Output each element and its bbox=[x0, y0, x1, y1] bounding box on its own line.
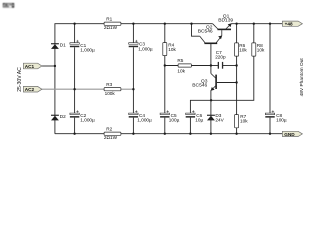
resistor R5 bbox=[177, 58, 191, 73]
node R3 to C3 C4 bbox=[132, 88, 134, 90]
capacitor C2 bbox=[70, 110, 95, 122]
svg-text:100µ: 100µ bbox=[276, 118, 287, 123]
svg-text:2Ω1W: 2Ω1W bbox=[104, 25, 118, 30]
wire C6 vertical bbox=[189, 118, 191, 134]
svg-text:100k: 100k bbox=[105, 91, 116, 96]
node AC1 junction bbox=[54, 65, 56, 67]
wire C7 left bbox=[211, 65, 218, 67]
wire AC1 to D line bbox=[42, 65, 55, 67]
wire R3 right bbox=[121, 88, 133, 90]
junction R4 top rail bbox=[164, 23, 166, 25]
wire R4 C5 vertical bbox=[164, 24, 166, 134]
node Q2 base R5 C7 bbox=[210, 64, 212, 66]
resistor R3 bbox=[104, 82, 121, 96]
wire Q2 collector from rail bbox=[192, 24, 200, 37]
capacitor C6 bbox=[186, 110, 204, 122]
resistor R8 bbox=[252, 43, 265, 56]
resistor R7 bbox=[235, 114, 249, 128]
svg-text:AC2: AC2 bbox=[25, 87, 35, 92]
node Q3 base R6 R7 bbox=[235, 81, 237, 83]
wire bottom rail bbox=[55, 133, 283, 135]
transistor Q3 BC546 bbox=[192, 74, 217, 91]
svg-text:10k: 10k bbox=[240, 119, 248, 124]
node AC2 capacitor midpoint bbox=[73, 88, 75, 90]
node C6 R8 D3 bbox=[210, 99, 212, 101]
junction C6 bottom rail bbox=[189, 133, 191, 135]
svg-text:R5: R5 bbox=[177, 58, 183, 63]
logo mark top left bbox=[3, 3, 15, 8]
junction C1 top rail bbox=[73, 23, 75, 25]
junction R6 top rail bbox=[235, 23, 237, 25]
svg-text:1,000µ: 1,000µ bbox=[138, 47, 153, 52]
resistor R1 bbox=[104, 17, 121, 30]
svg-text:R1: R1 bbox=[106, 17, 112, 22]
svg-text:1,000µ: 1,000µ bbox=[137, 118, 152, 123]
svg-text:D1: D1 bbox=[60, 43, 66, 48]
wire Q2 base node to Q3 collector bbox=[210, 66, 212, 74]
wire top rail left segment bbox=[55, 24, 213, 134]
junction C8 bottom rail bbox=[269, 133, 271, 135]
wire C1 C2 vertical bbox=[74, 24, 76, 134]
svg-text:100µ: 100µ bbox=[169, 118, 180, 123]
svg-text:1,000µ: 1,000µ bbox=[80, 47, 95, 52]
transistor Q2 BC546 bbox=[198, 24, 222, 44]
junction Q2 collector top rail bbox=[190, 23, 192, 25]
svg-text:220p: 220p bbox=[215, 54, 226, 59]
diode D2 bbox=[51, 114, 66, 120]
wire R5 line bbox=[165, 65, 211, 67]
svg-text:R3: R3 bbox=[106, 82, 112, 87]
junction R8 top rail bbox=[253, 23, 255, 25]
svg-text:+48: +48 bbox=[285, 22, 293, 27]
net flag AC2 bbox=[23, 86, 42, 92]
svg-text:BD139: BD139 bbox=[218, 17, 233, 23]
resistor R6 bbox=[235, 43, 248, 56]
junction C2 bottom rail bbox=[73, 133, 75, 135]
capacitor C7 bbox=[215, 50, 226, 69]
wire C8 vertical bbox=[269, 24, 271, 134]
net flag GND bbox=[282, 131, 302, 137]
svg-text:10k: 10k bbox=[239, 47, 247, 52]
svg-text:GND: GND bbox=[284, 132, 295, 137]
resistor R4 bbox=[163, 42, 177, 55]
wire C6 top to D3 node bbox=[190, 100, 211, 113]
svg-text:BC546: BC546 bbox=[192, 82, 207, 88]
net flag +48 bbox=[282, 21, 302, 27]
capacitor C8 bbox=[265, 110, 287, 122]
wire top rail right segment bbox=[231, 23, 282, 25]
junction C8 top rail bbox=[269, 23, 271, 25]
net flag AC1 bbox=[23, 63, 42, 69]
wire Q3 emitter to D3 to rail bbox=[210, 90, 212, 134]
resistor R2 bbox=[104, 127, 121, 140]
capacitor C3 bbox=[129, 40, 153, 52]
wire C7 right to R6 bbox=[223, 65, 237, 67]
svg-text:48V Phantom Out: 48V Phantom Out bbox=[299, 58, 305, 97]
node R4 R5 bbox=[164, 64, 166, 66]
svg-text:BC546: BC546 bbox=[198, 28, 213, 34]
zener diode D3 bbox=[207, 113, 225, 122]
svg-text:25-30V AC: 25-30V AC bbox=[17, 67, 23, 92]
wire R8 top lead bbox=[253, 24, 255, 43]
svg-text:24V: 24V bbox=[215, 117, 224, 122]
node C7 R6 bbox=[235, 64, 237, 66]
junction D3 bottom rail bbox=[210, 133, 212, 135]
wire R8 bottom to C6 node bbox=[211, 56, 254, 100]
svg-text:D2: D2 bbox=[60, 114, 66, 119]
junction C3 top rail bbox=[132, 23, 134, 25]
svg-text:10k: 10k bbox=[257, 47, 265, 52]
transistor Q1 BD139 bbox=[213, 13, 234, 36]
svg-text:AC1: AC1 bbox=[25, 64, 35, 69]
wire C3 C4 vertical bbox=[132, 24, 134, 134]
junction C4 bottom rail bbox=[132, 133, 134, 135]
svg-text:2Ω1W: 2Ω1W bbox=[104, 135, 118, 140]
wire R6 R7 vertical bbox=[236, 24, 238, 134]
capacitor C1 bbox=[70, 40, 95, 52]
wire Q2 base down bbox=[210, 44, 212, 66]
diode D1 bbox=[51, 43, 66, 49]
junction C5 bottom rail bbox=[164, 133, 166, 135]
svg-text:10k: 10k bbox=[177, 68, 185, 73]
junction R7 bottom rail bbox=[235, 133, 237, 135]
svg-text:1,000µ: 1,000µ bbox=[80, 118, 95, 123]
wire AC2 to R3 bbox=[42, 88, 105, 90]
svg-text:R2: R2 bbox=[106, 127, 112, 132]
svg-text:10µ: 10µ bbox=[195, 118, 203, 123]
capacitor C4 bbox=[129, 110, 152, 122]
wire Q3 base to R6 R7 node bbox=[217, 82, 237, 84]
svg-text:10k: 10k bbox=[168, 47, 176, 52]
capacitor C5 bbox=[160, 110, 180, 122]
